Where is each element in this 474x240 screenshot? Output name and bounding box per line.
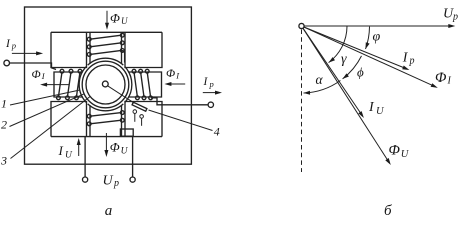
svg-text:2: 2	[1, 118, 7, 132]
svg-text:U: U	[121, 16, 128, 26]
left coil (current winding)	[58, 72, 62, 97]
arrow I_p out (right)	[203, 92, 217, 94]
left terminal	[4, 60, 10, 66]
core bottom bar	[51, 136, 162, 138]
wire bottom-right terminal to connector	[132, 136, 134, 177]
svg-text:I: I	[447, 76, 452, 87]
arrow Phi_U bottom	[105, 133, 107, 152]
angle arc psi (Phi_I to I_U)	[343, 56, 362, 79]
svg-text:U: U	[65, 151, 73, 161]
arrow Phi_I left	[46, 84, 69, 86]
wire bottom-left terminal to core	[84, 137, 86, 177]
vector I_p	[304, 27, 404, 68]
right coil (current winding)	[134, 72, 137, 97]
svg-text:1: 1	[1, 97, 7, 111]
outer frame of instrument	[25, 7, 192, 164]
core corner block bottom-right	[125, 102, 162, 137]
svg-text:4: 4	[214, 125, 220, 139]
phasor origin node	[299, 23, 304, 28]
wire from left terminal to left coil	[10, 63, 57, 70]
svg-text:Φ: Φ	[435, 70, 447, 86]
core corner block top-right	[125, 32, 162, 67]
pin with head (left)	[133, 110, 137, 114]
arrow Phi_I right	[170, 83, 186, 85]
svg-text:Φ: Φ	[110, 11, 120, 26]
top coil (voltage winding)	[90, 35, 122, 39]
svg-text:U: U	[121, 147, 129, 157]
svg-text:γ: γ	[341, 52, 347, 67]
leader to 4	[149, 110, 213, 131]
right pole with shoe face	[128, 72, 161, 97]
pin with head (right)	[140, 115, 144, 119]
svg-text:р: р	[209, 79, 214, 89]
svg-text:φ: φ	[373, 30, 381, 45]
bottom coil (voltage winding)	[90, 113, 122, 117]
svg-text:р: р	[11, 41, 16, 51]
right terminal	[208, 102, 213, 107]
vector I_U	[303, 28, 361, 113]
vane (flag) on arm	[132, 102, 147, 111]
vector Phi_U	[303, 28, 388, 160]
bottom-right terminal	[130, 177, 135, 182]
svg-text:р: р	[452, 12, 458, 23]
svg-text:р: р	[409, 56, 415, 67]
wire from right coil to right terminal	[151, 98, 208, 105]
angle arc gamma (U_p to I_U)	[329, 26, 347, 62]
arrow I_U up	[78, 144, 80, 157]
rotor outer circle	[82, 61, 129, 108]
svg-text:Φ: Φ	[389, 143, 401, 159]
svg-text:3: 3	[0, 154, 7, 168]
svg-text:Φ: Φ	[32, 67, 41, 81]
svg-text:ϕ: ϕ	[357, 65, 364, 80]
svg-text:Φ: Φ	[110, 140, 120, 155]
connector box	[120, 129, 133, 136]
svg-text:Φ: Φ	[166, 66, 175, 80]
core corner block bottom-left	[51, 102, 87, 137]
leader to 1	[10, 90, 80, 105]
top pole with shoe face	[90, 32, 122, 64]
lead from top coil	[122, 50, 125, 62]
rotor arm	[108, 86, 135, 103]
arrow I_p in (left)	[12, 52, 38, 54]
angle arc phi (U_p to I_p)	[366, 27, 370, 49]
bottom-left terminal	[83, 177, 88, 182]
core corner block top-left	[51, 32, 87, 67]
vector Phi_I	[304, 27, 433, 86]
svg-text:I: I	[58, 143, 64, 158]
leader to 2	[10, 94, 85, 127]
left pole with shoe face	[54, 72, 83, 97]
core top bar	[51, 31, 162, 33]
angle arc alpha (I_U to vertical)	[304, 81, 341, 94]
leader to 3	[11, 97, 91, 159]
rotor inner circle	[86, 65, 125, 104]
vector U_p	[304, 25, 450, 27]
svg-text:U: U	[103, 174, 114, 189]
dashed vertical reference line	[301, 30, 303, 173]
svg-text:а: а	[105, 203, 113, 219]
bottom pole with shoe face	[90, 105, 122, 136]
svg-text:α: α	[316, 72, 324, 87]
arrow Phi_U top	[106, 11, 108, 25]
svg-text:р: р	[113, 178, 119, 189]
svg-text:б: б	[384, 203, 392, 219]
rotor shaft	[102, 81, 108, 87]
